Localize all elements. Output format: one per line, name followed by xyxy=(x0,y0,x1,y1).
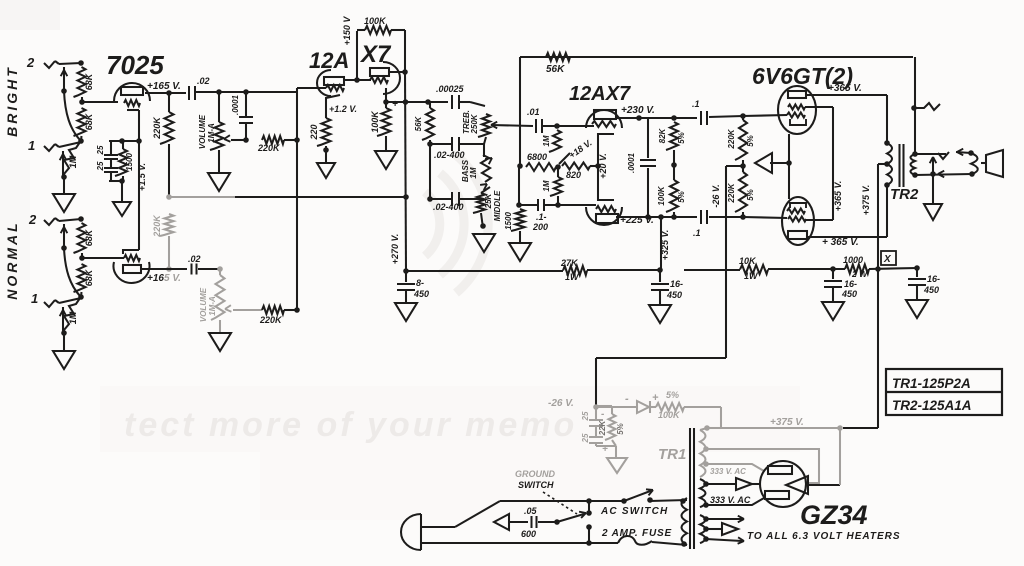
svg-text:56K: 56K xyxy=(414,115,423,131)
svg-text:TR2: TR2 xyxy=(890,186,919,203)
svg-text:25: 25 xyxy=(581,433,590,443)
svg-text:1000: 1000 xyxy=(843,255,863,265)
svg-text:.02: .02 xyxy=(188,254,201,264)
svg-text:+165 V.: +165 V. xyxy=(147,81,181,92)
svg-text:VOLUME: VOLUME xyxy=(198,114,207,149)
svg-text:220K: 220K xyxy=(152,116,162,140)
svg-text:.05: .05 xyxy=(524,506,538,516)
svg-text:600: 600 xyxy=(521,529,536,539)
svg-text:25: 25 xyxy=(581,411,590,421)
svg-text:25: 25 xyxy=(96,161,105,171)
svg-text:+ 365 V.: + 365 V. xyxy=(822,237,859,248)
svg-text:+325 V.: +325 V. xyxy=(660,230,670,260)
svg-text:VOLUME: VOLUME xyxy=(199,287,208,322)
svg-text:68K: 68K xyxy=(84,268,94,286)
svg-text:220K: 220K xyxy=(727,182,736,203)
svg-text:.0001: .0001 xyxy=(231,94,240,115)
svg-text:+1.2 V.: +1.2 V. xyxy=(329,104,357,114)
svg-text:333 V. AC: 333 V. AC xyxy=(710,467,746,476)
svg-text:GZ34: GZ34 xyxy=(800,500,868,530)
svg-text:TR1: TR1 xyxy=(658,446,686,463)
svg-text:.1-: .1- xyxy=(536,212,547,222)
svg-text:+150 V: +150 V xyxy=(342,16,352,46)
svg-text:+375 V.: +375 V. xyxy=(861,185,871,215)
svg-text:+270 V.: +270 V. xyxy=(390,234,400,264)
svg-text:.02-400: .02-400 xyxy=(434,150,465,160)
svg-text:1M: 1M xyxy=(542,135,551,146)
svg-text:25K: 25K xyxy=(484,192,493,209)
svg-text:333 V. AC: 333 V. AC xyxy=(710,495,751,505)
svg-text:TR2-125A1A: TR2-125A1A xyxy=(892,398,972,413)
svg-text:MIDDLE: MIDDLE xyxy=(493,190,502,221)
svg-text:SWITCH: SWITCH xyxy=(518,480,554,490)
svg-text:-26 V.: -26 V. xyxy=(711,184,721,207)
svg-text:68K: 68K xyxy=(84,112,94,130)
svg-text:5%: 5% xyxy=(616,423,625,435)
svg-text:27K: 27K xyxy=(560,258,579,268)
svg-text:22K: 22K xyxy=(598,419,607,436)
svg-text:.1: .1 xyxy=(693,228,701,238)
svg-text:1M: 1M xyxy=(68,311,78,324)
svg-text:.00025: .00025 xyxy=(436,84,465,94)
svg-text:8-: 8- xyxy=(416,278,424,288)
svg-text:12AX7: 12AX7 xyxy=(569,83,631,105)
svg-text:AC SWITCH: AC SWITCH xyxy=(600,506,668,517)
svg-text:25: 25 xyxy=(96,145,105,155)
svg-text:-26 V.: -26 V. xyxy=(548,398,574,409)
svg-text:100K: 100K xyxy=(364,16,387,26)
svg-text:68K: 68K xyxy=(84,72,94,90)
svg-text:16-: 16- xyxy=(844,279,857,289)
svg-text:16-: 16- xyxy=(670,279,683,289)
svg-text:X: X xyxy=(883,254,892,265)
svg-text:tect more of your memo: tect more of your memo xyxy=(124,406,577,444)
svg-text:.0001: .0001 xyxy=(627,152,636,173)
svg-text:10K: 10K xyxy=(739,256,757,266)
svg-text:220K: 220K xyxy=(259,315,283,325)
svg-text:450: 450 xyxy=(923,285,939,295)
svg-text:100K: 100K xyxy=(370,110,380,133)
svg-text:+: + xyxy=(392,99,398,110)
svg-text:220K: 220K xyxy=(152,214,162,238)
svg-text:5 V.: 5 V. xyxy=(164,273,181,284)
svg-text:1M: 1M xyxy=(68,155,78,168)
svg-text:82K: 82K xyxy=(658,127,667,143)
svg-text:16-: 16- xyxy=(927,274,940,284)
svg-text:1W: 1W xyxy=(744,271,759,281)
svg-text:5%: 5% xyxy=(746,135,755,147)
svg-text:68K: 68K xyxy=(84,228,94,246)
svg-text:450: 450 xyxy=(413,289,429,299)
svg-text:1500: 1500 xyxy=(125,153,134,171)
svg-text:+20 V.: +20 V. xyxy=(598,153,608,178)
svg-text:1M-A: 1M-A xyxy=(207,123,216,143)
svg-text:1: 1 xyxy=(31,291,38,306)
svg-text:5%: 5% xyxy=(677,132,686,144)
svg-text:1M: 1M xyxy=(469,167,478,178)
svg-text:TR1-125P2A: TR1-125P2A xyxy=(892,376,971,391)
svg-text:250K: 250K xyxy=(470,113,479,134)
svg-text:6800: 6800 xyxy=(527,152,547,162)
svg-text:450: 450 xyxy=(841,289,857,299)
svg-text:NORMAL: NORMAL xyxy=(4,220,20,299)
svg-text:450: 450 xyxy=(666,290,682,300)
svg-text:GROUND: GROUND xyxy=(515,469,555,479)
svg-text:2: 2 xyxy=(26,55,35,70)
svg-text:2 W: 2 W xyxy=(851,269,868,279)
svg-text:56K: 56K xyxy=(546,64,565,75)
svg-text:7025: 7025 xyxy=(106,50,164,80)
svg-text:2 AMP. FUSE: 2 AMP. FUSE xyxy=(601,528,672,539)
svg-text:1M: 1M xyxy=(542,180,551,191)
svg-text:5%: 5% xyxy=(677,191,686,203)
svg-text:1500: 1500 xyxy=(504,212,513,230)
svg-text:.02-400: .02-400 xyxy=(433,202,464,212)
svg-text:.1: .1 xyxy=(692,99,700,109)
svg-text:220K: 220K xyxy=(727,128,736,149)
svg-text:+16: +16 xyxy=(147,273,164,284)
svg-text:BRIGHT: BRIGHT xyxy=(4,65,20,137)
svg-text:2: 2 xyxy=(28,212,37,227)
svg-text:1W: 1W xyxy=(565,272,580,282)
svg-text:+365 V.: +365 V. xyxy=(833,181,843,211)
svg-text:.01: .01 xyxy=(527,107,540,117)
svg-text:820: 820 xyxy=(566,170,581,180)
svg-text:220: 220 xyxy=(309,124,319,140)
svg-text:100K: 100K xyxy=(657,185,666,205)
svg-text:220K: 220K xyxy=(257,143,281,153)
svg-text:+365 V.: +365 V. xyxy=(828,83,862,94)
svg-text:+230 V.: +230 V. xyxy=(621,105,655,116)
svg-text:TO ALL 6.3 VOLT HEATERS: TO ALL 6.3 VOLT HEATERS xyxy=(747,531,901,542)
svg-text:+375 V.: +375 V. xyxy=(770,417,804,428)
svg-text:.02: .02 xyxy=(197,76,210,86)
svg-text:1: 1 xyxy=(28,138,35,153)
svg-text:X7: X7 xyxy=(359,41,392,68)
svg-text:200: 200 xyxy=(532,222,548,232)
svg-text:100K: 100K xyxy=(658,410,681,420)
svg-text:-: - xyxy=(625,393,629,405)
svg-text:5%: 5% xyxy=(666,390,679,400)
svg-text:5%: 5% xyxy=(746,189,755,201)
